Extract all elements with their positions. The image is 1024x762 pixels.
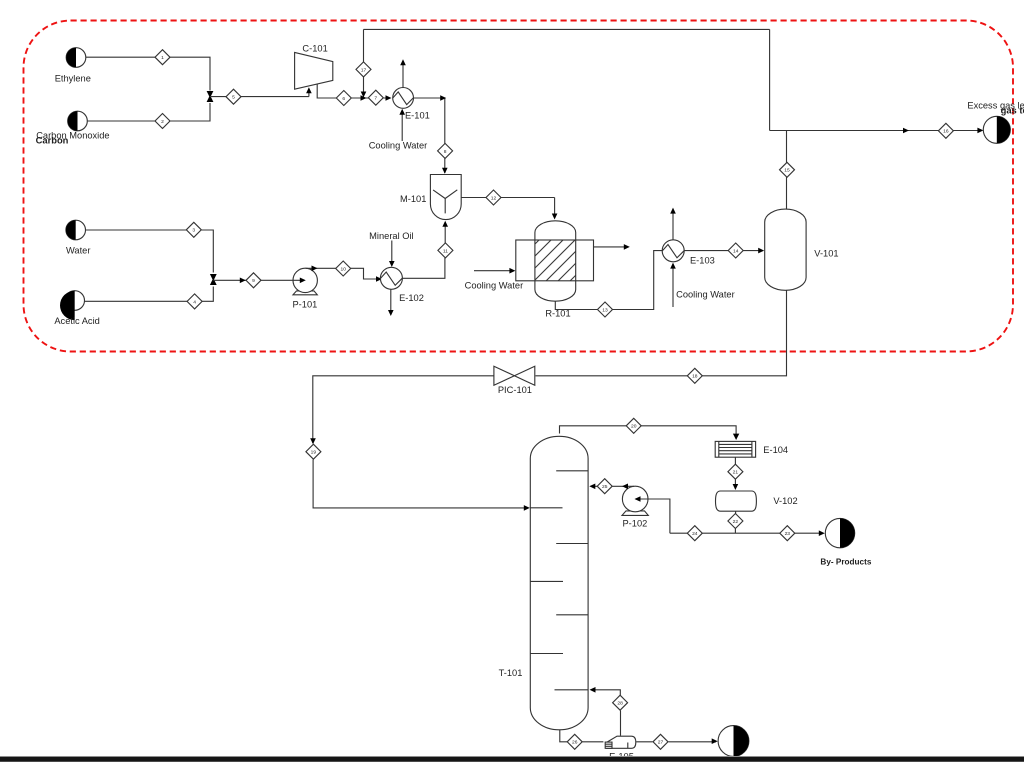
diamond 16 (938, 123, 953, 138)
diamond 25 (597, 479, 612, 494)
reflux drum V-102 (716, 491, 757, 511)
diamond 14 (728, 243, 743, 258)
diamond 19 (306, 444, 321, 459)
arrow cooling into jacket (509, 268, 515, 274)
arrow down into M-101 (442, 168, 448, 174)
svg-text:E-102: E-102 (399, 293, 424, 303)
svg-text:Ethylene: Ethylene (55, 73, 91, 83)
svg-text:21: 21 (733, 470, 739, 476)
diamond 1 (155, 50, 170, 65)
diamond 6 (336, 91, 351, 106)
wire P-101 discharge to E-102 (306, 268, 379, 279)
arrow vent E-101 (400, 59, 406, 65)
diamond 21 (728, 464, 743, 479)
heat exchanger E-102 (380, 267, 402, 289)
wire E-105 vapor return to column (591, 690, 621, 736)
vessel V-101 (765, 209, 806, 290)
arrow end of side outlet (624, 244, 630, 250)
diamond 3 (186, 222, 201, 237)
wire reflux to P-102 (637, 499, 670, 533)
wire E-102 to M-101 (402, 222, 445, 278)
arrow into E-101 (386, 95, 392, 101)
svg-text:Cooling Water: Cooling Water (465, 281, 524, 291)
svg-text:V-101: V-101 (814, 248, 838, 258)
tray 2 (feed tray) (530, 507, 562, 509)
arrow on header (903, 128, 909, 134)
svg-text:4: 4 (193, 299, 196, 305)
svg-text:P-102: P-102 (622, 519, 647, 529)
svg-text:26: 26 (572, 740, 578, 746)
arrow right before corner after E-101 (440, 95, 446, 101)
diamond 18 (687, 368, 702, 383)
svg-text:16: 16 (943, 129, 949, 135)
reactor R-101 jacket (516, 240, 594, 281)
wire ethylene to junction (86, 57, 210, 90)
sink By-Products (825, 518, 854, 547)
cooling water line into R-101 (474, 270, 514, 272)
diamond 15 (780, 162, 795, 177)
svg-text:PIC-101: PIC-101 (498, 385, 532, 395)
stream numbers (161, 55, 949, 746)
svg-text:6: 6 (342, 96, 345, 102)
svg-text:22: 22 (733, 519, 739, 525)
wire C-101 outlet to E-101 (317, 84, 389, 98)
diamond 12 (486, 190, 501, 205)
diamond 7 (368, 90, 383, 105)
diamond 24 (687, 526, 702, 541)
svg-text:M-101: M-101 (400, 194, 426, 204)
wire T-101 bottoms to E-105 (560, 730, 604, 742)
svg-text:By- Products: By- Products (820, 557, 871, 566)
svg-text:28: 28 (617, 701, 623, 707)
recycle line stream 17 (364, 29, 770, 130)
arrow feed into T-101 (524, 505, 530, 511)
E-101 vent line up (402, 62, 404, 88)
wire M-101 to R-101 (461, 198, 554, 219)
tray 1 (556, 470, 588, 472)
wire V-102 bottoms (734, 511, 736, 533)
arrow cooling into E-103 (670, 263, 676, 269)
reactor R-101 hatch (492, 205, 625, 320)
arrow up into C-101 (306, 87, 312, 93)
arrow mineral oil into E-102 (389, 261, 395, 267)
svg-text:15: 15 (784, 168, 790, 174)
svg-text:18: 18 (692, 374, 698, 380)
sink Propionic Acid (718, 726, 749, 757)
wire E-103 to V-101 (684, 250, 762, 252)
diamond 11 (438, 243, 453, 258)
diamond 13 (598, 302, 613, 317)
svg-text:7: 7 (374, 96, 377, 102)
svg-text:Carbon: Carbon (36, 135, 69, 146)
arrow vapor return into column (590, 687, 596, 693)
svg-text:E-103: E-103 (690, 256, 715, 266)
E-103 cooling water line (672, 264, 674, 307)
mineral oil feed line (391, 241, 393, 266)
svg-text:E-101: E-101 (405, 111, 430, 121)
wire carbon monoxide to junction (87, 103, 210, 121)
mineral oil return line down (390, 289, 392, 314)
arrow into by-products (819, 530, 825, 536)
wire P-102 discharge to T-101 (591, 485, 635, 487)
heat exchanger E-101 (393, 88, 414, 109)
tray 3 (556, 543, 588, 545)
arrow into excess gas (977, 128, 983, 134)
wire top-right header to excess gas (770, 130, 982, 132)
svg-text:V-102: V-102 (773, 496, 797, 506)
wire junction to P-101 (213, 279, 303, 281)
svg-text:25: 25 (602, 484, 608, 490)
svg-text:10: 10 (340, 266, 346, 272)
svg-text:20: 20 (631, 424, 637, 430)
sink Excess gas (983, 116, 1010, 143)
wire E-105 to product (636, 741, 716, 743)
arrow down into V-102 (733, 484, 739, 490)
svg-text:5: 5 (232, 95, 235, 101)
compressor C-101 (295, 52, 333, 89)
wire V-101 bottoms to valve (536, 290, 787, 376)
svg-text:P-101: P-101 (292, 299, 317, 309)
svg-text:R-101: R-101 (545, 309, 570, 319)
svg-text:C-101: C-101 (302, 43, 327, 53)
junction bowtie streams 1+2 (207, 91, 214, 102)
arrow reflux into column (589, 484, 595, 490)
svg-text:2: 2 (161, 119, 164, 125)
svg-text:11: 11 (443, 248, 448, 254)
column T-101 (530, 436, 588, 730)
arrow into E-102 (376, 276, 382, 282)
diamond 26 (567, 734, 582, 749)
svg-text:Water: Water (66, 246, 90, 256)
wire water to junction (86, 230, 214, 273)
wire acetic acid to junction (85, 287, 214, 302)
tray 7 (555, 689, 589, 691)
condenser E-104 (715, 441, 755, 457)
svg-text:Acetic Acid: Acetic Acid (54, 316, 99, 326)
diamond 20 (626, 418, 641, 433)
arrow down into R-101 (552, 214, 558, 220)
pump P-101 (293, 268, 317, 295)
arrow cooling into E-101 (399, 109, 405, 115)
distillate header (670, 532, 823, 534)
svg-text:gas te: gas te (1001, 104, 1024, 115)
tray 5 (556, 614, 588, 616)
mixer M-101 (430, 175, 461, 220)
svg-text:Mineral Oil: Mineral Oil (369, 231, 413, 241)
reboiler E-105 (605, 736, 636, 748)
arrow before diamond 9 (240, 278, 246, 284)
arrow down before diamond 19 (310, 438, 316, 444)
diamond 4 (187, 294, 202, 309)
arrow after pump discharge (622, 484, 628, 490)
source Water (66, 220, 86, 240)
wire E-101 to M-101 (414, 98, 445, 173)
tray 4 (530, 580, 563, 582)
junction bowtie streams 3+4 (210, 274, 217, 285)
diamond 10 (336, 261, 351, 276)
R-101 side outlet arrow line (594, 246, 628, 248)
svg-text:23: 23 (785, 531, 791, 537)
diamond 23 (780, 526, 795, 541)
source Carbon Monoxide (68, 111, 88, 131)
wire valve to T-101 feed (313, 376, 528, 508)
wire R-101 bottom to E-103 (555, 251, 662, 310)
control valve PIC-101 (494, 366, 535, 385)
wire V-101 overhead riser (786, 131, 788, 210)
svg-text:14: 14 (733, 248, 739, 254)
arrow up into M-101 bottom (442, 221, 448, 227)
wire T-101 overhead to E-104 (560, 426, 737, 439)
svg-text:13: 13 (602, 307, 608, 313)
svg-text:17: 17 (361, 67, 367, 73)
stream diamonds (155, 50, 953, 750)
arrow down into E-104 (733, 434, 739, 440)
svg-text:Cooling Water: Cooling Water (369, 141, 428, 151)
svg-text:9: 9 (252, 278, 255, 284)
arrow into P-102 center (635, 496, 641, 502)
diamond 22 (728, 514, 743, 529)
diamond 8 (438, 143, 453, 158)
arrow after P-101 discharge (312, 266, 318, 272)
svg-text:E-104: E-104 (763, 445, 788, 455)
svg-text:19: 19 (311, 450, 317, 456)
svg-text:3: 3 (192, 228, 195, 234)
pump P-102 (622, 486, 648, 515)
arrow right before stream-17 junction (361, 95, 367, 101)
diamond 27 (653, 734, 668, 749)
E-101 cooling water line (401, 111, 403, 142)
arrow into P-101 center (300, 278, 306, 284)
diamond 28 (613, 695, 628, 710)
svg-text:12: 12 (491, 195, 497, 201)
svg-text:24: 24 (692, 531, 698, 537)
E-103 vent line (672, 210, 674, 240)
svg-text:T-101: T-101 (499, 668, 523, 678)
diamond 9 (246, 273, 261, 288)
arrow down end of recycle line 17 (361, 92, 367, 98)
red dashed battery-limit box (24, 21, 1014, 352)
svg-text:8: 8 (444, 149, 447, 155)
diamond 17 (356, 62, 371, 77)
arrow into V-101 (758, 248, 764, 254)
heat exchanger E-103 (662, 240, 684, 262)
bottom window bar (0, 756, 1024, 757)
diamond 5 (226, 89, 241, 104)
svg-text:1: 1 (161, 55, 164, 61)
arrow mineral oil out (388, 310, 394, 316)
svg-text:27: 27 (658, 740, 664, 746)
arrow into propionic acid sink (712, 738, 718, 744)
source Ethylene (66, 48, 86, 68)
wire E-104 to V-102 (734, 457, 736, 488)
arrow vent E-103 (670, 208, 676, 214)
tray 6 (530, 653, 563, 655)
svg-text:Cooling Water: Cooling Water (676, 289, 735, 299)
diamond 2 (155, 114, 170, 129)
wire junction to C-101 inlet (210, 89, 309, 97)
reactor R-101 vessel (535, 221, 576, 301)
source Acetic Acid (60, 291, 84, 320)
